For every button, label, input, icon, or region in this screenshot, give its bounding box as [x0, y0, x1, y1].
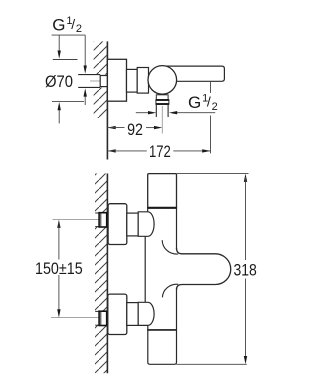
- outlet stub ring 1 (top view): [156, 95, 168, 100]
- leader line under G 1/2: [52, 34, 86, 36]
- wall face line (front view): [106, 174, 108, 374]
- G1/2 pipe dim upper arrow (down): [84, 35, 87, 74]
- outlet stub centerline: [161, 106, 163, 134]
- lower joint line: [147, 329, 176, 331]
- bold joint line: [148, 207, 177, 209]
- dia70 dim lower arrow (up): [58, 102, 61, 123]
- bottom union bolt: [99, 311, 107, 325]
- dim 172: [107, 142, 210, 161]
- svg-text:/: /: [207, 94, 211, 110]
- supply pipe in wall (top view): [78, 75, 100, 88]
- spout U outline: [177, 248, 231, 290]
- flange bottom extension line: [52, 100, 84, 102]
- pipe union rect (top view): [100, 76, 107, 87]
- G1/2 pipe dim lower arrow (up): [84, 88, 87, 105]
- svg-text:Ø70: Ø70: [45, 72, 73, 91]
- valve cap circle (top view): [148, 66, 177, 95]
- bottom union neck: [127, 303, 138, 326]
- body shaft (top view): [127, 69, 138, 92]
- pipe centerline (top view): [90, 80, 106, 82]
- top union centerline: [53, 219, 108, 221]
- top union dome: [138, 212, 154, 237]
- svg-text:2: 2: [212, 101, 218, 113]
- top union escutcheon: [108, 204, 127, 245]
- dim 150±15: [35, 220, 83, 318]
- svg-text:92: 92: [127, 120, 143, 139]
- wall hatch (top view): [94, 41, 107, 118]
- top cap of body: [148, 174, 177, 208]
- dim 92: [107, 120, 162, 139]
- top union neck: [127, 213, 138, 236]
- outlet stub ring 2 bold (top view): [156, 100, 169, 105]
- stub dim leader left segment with right arrow: [136, 111, 157, 114]
- svg-text:318: 318: [234, 260, 257, 279]
- spout gap cover: [175, 250, 178, 288]
- main body column: [145, 208, 176, 364]
- label G 1/2 (top left): [52, 15, 82, 35]
- wall hatch (front view): [95, 174, 107, 374]
- lever handle (top view): [164, 66, 224, 81]
- dim 318: [234, 174, 257, 365]
- top union bolt ticks: [95, 213, 107, 227]
- outlet stub pipe (top view): [156, 104, 168, 117]
- 318 bottom extension line: [176, 363, 246, 365]
- spout-body intersection arc bottom: [162, 284, 178, 297]
- top union bolt: [99, 213, 107, 227]
- svg-text:/: /: [71, 16, 75, 32]
- bottom union bolt ticks: [95, 311, 107, 325]
- wall flange / escutcheon (top view): [107, 59, 126, 101]
- 318 top extension line: [177, 173, 249, 175]
- svg-text:172: 172: [149, 142, 171, 161]
- bottom union dome: [138, 302, 154, 325]
- wall face line (top view): [106, 41, 108, 159]
- stub dim leader right segment with left arrow: [169, 111, 215, 114]
- svg-text:G: G: [52, 15, 65, 34]
- flange top extension line: [53, 59, 78, 61]
- bottom union escutcheon: [108, 294, 127, 334]
- spout-body intersection arc top: [162, 240, 178, 254]
- bottom union centerline: [51, 317, 107, 319]
- dia70 dim upper arrow (down): [58, 35, 61, 59]
- collar (top view): [137, 68, 148, 94]
- label G 1/2 (top right): [188, 93, 218, 113]
- svg-text:G: G: [188, 93, 201, 112]
- extension line from handle (172 right): [210, 81, 212, 153]
- svg-text:2: 2: [76, 23, 82, 35]
